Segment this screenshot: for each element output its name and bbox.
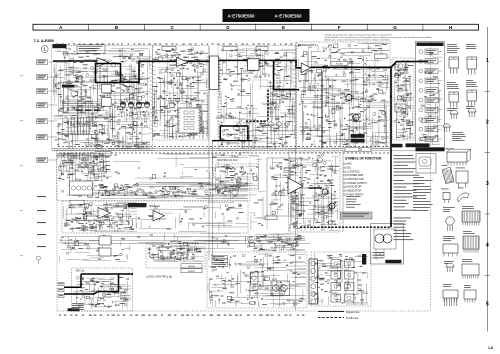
value label — [161, 108, 163, 111]
volume pots — [71, 186, 91, 190]
bus line v4 — [342, 150, 344, 232]
capacitor — [291, 161, 336, 225]
resistor — [224, 61, 288, 127]
pkg text list — [452, 132, 466, 141]
arrow — [390, 96, 392, 99]
transistor — [99, 207, 112, 229]
pcb outline logic control — [146, 243, 205, 268]
margin ticks — [20, 75, 23, 256]
power amp L output — [310, 62, 428, 68]
pcb outline indicator column — [416, 42, 445, 148]
pcb outline bottom center — [207, 252, 307, 308]
label logic ic1 — [181, 264, 202, 268]
junction — [60, 155, 103, 178]
power transistor Q504 — [329, 203, 335, 209]
svg-text:3: 3 — [486, 181, 489, 187]
package TO-92 round — [446, 217, 454, 225]
capacitor — [162, 188, 211, 191]
pkg text r7b — [458, 187, 464, 190]
value label — [291, 165, 336, 228]
volume IC pins — [208, 58, 220, 86]
junction — [98, 186, 237, 195]
resistor — [56, 55, 144, 127]
op-amp IC102 L — [177, 58, 189, 67]
resistor — [138, 236, 229, 250]
block: power amp L texture — [298, 43, 389, 147]
wire — [220, 49, 295, 142]
block: indicator col texture — [418, 52, 443, 145]
resistor — [56, 55, 140, 126]
svg-text:1-6: 1-6 — [488, 346, 493, 350]
transistor — [394, 65, 408, 131]
svg-text:(e) PROTECTOR: (e) PROTECTOR — [344, 177, 364, 181]
wire — [59, 154, 94, 182]
wire — [225, 54, 295, 149]
wire — [59, 155, 111, 181]
block: tone lower texture — [62, 182, 248, 200]
diode — [223, 105, 275, 136]
svg-text:F: F — [338, 25, 341, 30]
wire — [59, 237, 129, 262]
value label — [64, 204, 130, 228]
block: cn pin field texture — [245, 234, 305, 252]
value label — [300, 57, 385, 143]
block: bottom center texture — [208, 254, 306, 307]
wire — [219, 53, 294, 149]
wire — [300, 44, 390, 142]
wire — [113, 153, 248, 178]
resistor — [150, 155, 239, 179]
capacitor — [78, 185, 239, 197]
transistor — [62, 51, 140, 147]
label psu dark — [362, 254, 366, 265]
row tick — [485, 213, 490, 215]
package TO-92 a — [450, 110, 458, 119]
value label — [65, 48, 144, 147]
legend notes col B — [394, 180, 419, 211]
resistor — [315, 59, 387, 146]
wire — [77, 281, 128, 307]
wire — [208, 256, 294, 307]
value label — [61, 80, 134, 147]
svg-text:2: 2 — [486, 119, 489, 125]
wire — [49, 104, 58, 106]
wire — [153, 53, 208, 137]
arrow — [70, 60, 72, 62]
IC — [253, 177, 257, 181]
package small end — [464, 290, 476, 303]
wire — [117, 156, 235, 180]
bus pin labels — [58, 146, 389, 153]
resistor — [306, 56, 382, 133]
wire — [248, 234, 305, 251]
diode — [248, 241, 298, 251]
wire — [59, 241, 130, 262]
driver transistor Q505 — [318, 158, 323, 163]
IC — [421, 119, 427, 141]
resistor — [397, 90, 402, 92]
wire — [290, 155, 335, 231]
svg-text:LA7954: LA7954 — [188, 265, 196, 268]
IC — [234, 93, 291, 129]
block: psu texture — [313, 253, 368, 305]
connector — [58, 288, 64, 291]
connector label — [37, 246, 46, 247]
IC — [83, 204, 122, 221]
transistor — [301, 44, 379, 141]
pcb outline eq L block — [62, 201, 248, 233]
svg-text:* Design and specifications su: * Design and specifications subject to c… — [324, 33, 393, 36]
schematic bottom border — [57, 310, 430, 312]
wire — [395, 86, 414, 139]
label EQ ic — [128, 203, 147, 207]
bus line h1 — [52, 148, 390, 150]
value label — [57, 115, 132, 145]
junction — [299, 46, 380, 130]
connector label — [37, 210, 46, 211]
wire — [216, 261, 306, 304]
legend footnotes — [346, 196, 361, 208]
value label — [73, 183, 227, 197]
resistor — [398, 72, 412, 136]
wire — [105, 208, 129, 225]
IC — [250, 242, 297, 246]
pkg text r10a — [444, 261, 454, 264]
value label — [65, 49, 144, 137]
legend notes col C — [394, 218, 414, 241]
label trans dark — [385, 260, 401, 263]
resistor — [154, 70, 197, 134]
package ZIP hatch — [463, 236, 479, 253]
block: eq L texture — [64, 202, 138, 232]
wire — [395, 76, 413, 139]
label mic pcb — [68, 308, 80, 311]
wire — [291, 160, 339, 224]
capacitor — [139, 209, 228, 228]
value label — [84, 184, 218, 198]
transistor — [171, 68, 204, 102]
pcb outline control1 sub — [216, 164, 259, 189]
transformer leads — [375, 249, 377, 260]
diode — [102, 183, 224, 197]
wire — [154, 245, 187, 261]
indicator LED D602 — [419, 59, 423, 63]
speaker rail — [390, 67, 392, 227]
arrow — [119, 273, 121, 275]
svg-text:CONTROL (2) R-ch: CONTROL (2) R-ch — [217, 159, 239, 162]
pkg text 2SD667 — [466, 80, 478, 87]
label F-2008 c — [265, 216, 277, 220]
value label — [63, 56, 146, 130]
volume pot box — [70, 181, 93, 195]
value label — [300, 47, 377, 131]
junction — [80, 277, 124, 305]
value label — [157, 53, 201, 134]
wire — [314, 46, 388, 147]
bus line v2 — [212, 140, 214, 255]
grid separator F — [311, 24, 313, 30]
value label — [318, 45, 380, 141]
value label — [315, 263, 350, 288]
wire — [291, 163, 339, 231]
block: control1 sub texture — [216, 165, 258, 189]
svg-text:(d) POWER AMP: (d) POWER AMP — [344, 173, 364, 177]
wire — [208, 265, 303, 305]
wire — [66, 183, 248, 198]
capacitor — [395, 61, 411, 137]
diode — [83, 215, 132, 230]
grid separator B — [88, 24, 90, 30]
junction — [221, 140, 223, 142]
capacitor — [83, 277, 122, 307]
capacitor — [271, 239, 295, 250]
label SELECTOR dark — [62, 85, 75, 88]
indicator LED D607 — [419, 108, 423, 112]
value label — [219, 166, 248, 187]
wire — [150, 245, 195, 262]
value label — [76, 277, 126, 305]
capacitor — [171, 249, 194, 261]
transistor Q21 — [261, 122, 266, 127]
capacitor — [153, 64, 198, 137]
arrow — [160, 60, 162, 62]
transistor — [292, 154, 335, 223]
resistor — [250, 236, 277, 248]
svg-text:5: 5 — [486, 301, 489, 307]
relay RY601 — [395, 62, 406, 70]
IC U103 dip — [178, 108, 200, 133]
wire — [74, 184, 218, 198]
label F-2010 — [53, 44, 67, 48]
junction — [207, 170, 208, 171]
svg-text:1: 1 — [486, 58, 489, 64]
connector CN107 — [37, 158, 48, 163]
diode — [220, 54, 292, 135]
wire — [397, 62, 410, 139]
wire — [49, 76, 58, 78]
resistor — [61, 154, 94, 180]
wire — [67, 204, 137, 232]
capacitor — [55, 59, 140, 134]
wire — [216, 167, 252, 189]
value label — [253, 49, 293, 139]
resistor — [300, 157, 334, 217]
value label — [421, 53, 439, 137]
wire — [54, 50, 151, 136]
wire — [152, 54, 200, 139]
wire — [304, 53, 386, 147]
junction — [248, 140, 250, 142]
capacitor — [73, 90, 145, 112]
wire — [313, 257, 368, 304]
package small 7a — [443, 193, 450, 200]
value label — [218, 262, 279, 302]
row tick — [485, 275, 490, 277]
value label — [65, 204, 135, 229]
resistor — [79, 283, 126, 307]
value label — [299, 170, 335, 228]
value label — [71, 185, 242, 195]
wire — [153, 247, 205, 261]
svg-text:MIC (a): MIC (a) — [76, 270, 85, 273]
capacitor — [76, 240, 78, 242]
arrow — [252, 120, 254, 122]
svg-text:(f) POWER SUPPLY: (f) POWER SUPPLY — [344, 181, 368, 185]
value label — [254, 200, 263, 225]
IC — [63, 52, 124, 149]
wire — [221, 49, 295, 149]
arrow — [229, 59, 231, 61]
value label — [71, 238, 124, 259]
IC — [303, 44, 385, 118]
power transistor Q502 — [353, 114, 359, 120]
resistor — [62, 184, 238, 198]
capacitor — [164, 172, 166, 177]
value label — [153, 56, 198, 136]
bus label box b — [361, 148, 371, 152]
value label — [305, 52, 384, 140]
resistor — [153, 51, 204, 132]
transistor — [217, 165, 242, 184]
value label — [229, 171, 234, 178]
transistor — [304, 66, 346, 131]
transistor Q22 — [269, 122, 274, 127]
wire — [304, 45, 387, 147]
resistor — [231, 167, 243, 183]
resistor — [256, 140, 258, 141]
pkg text 2SC2240 — [466, 44, 476, 49]
junction — [254, 215, 255, 216]
wire — [165, 234, 218, 253]
parts table box — [77, 45, 105, 54]
transistor — [157, 204, 241, 219]
value label — [114, 154, 241, 173]
junction — [214, 140, 216, 142]
resistor — [72, 190, 146, 196]
value label — [397, 61, 413, 126]
value label — [227, 56, 292, 134]
label box eq — [70, 200, 84, 204]
transistor — [76, 276, 127, 301]
op-amp power amp L — [301, 63, 310, 73]
wire — [49, 61, 58, 63]
wire — [58, 64, 138, 149]
label box top b — [223, 46, 237, 50]
package DIP-C — [462, 264, 479, 279]
wire — [239, 50, 295, 147]
diode — [71, 85, 134, 142]
arrow — [247, 132, 249, 134]
wire — [216, 165, 258, 185]
value label — [213, 260, 302, 305]
wire — [54, 48, 148, 149]
capacitor — [156, 51, 205, 136]
indicator LED D608 — [419, 118, 423, 122]
block: tone ribbon texture — [57, 152, 112, 182]
ribbon bundle — [57, 154, 110, 158]
driver transistor Q506 — [328, 205, 333, 210]
pkg text r9b — [463, 231, 475, 234]
bus thick segment — [212, 140, 252, 142]
tone resistor row — [100, 187, 232, 194]
grid column band — [33, 24, 479, 30]
diode — [82, 278, 113, 292]
wire — [54, 54, 150, 141]
op-amp IC101 L — [97, 58, 109, 67]
capacitor — [298, 45, 371, 144]
diode — [316, 266, 362, 295]
wire — [62, 154, 112, 181]
speaker terminal L — [273, 285, 280, 292]
row margin line — [486, 27, 488, 332]
IC U201 — [102, 84, 112, 93]
wire — [289, 154, 331, 231]
connector — [58, 282, 64, 285]
pcb outline power amp L — [297, 42, 391, 148]
wire — [59, 69, 147, 147]
package DIP-14 3d — [447, 152, 467, 166]
value label — [269, 160, 296, 205]
arrow — [294, 89, 296, 91]
value label — [57, 82, 137, 140]
wire — [64, 205, 137, 231]
wire — [245, 234, 301, 252]
selector knob — [71, 90, 77, 96]
resistor — [60, 235, 124, 257]
transistor Q23 — [277, 122, 282, 127]
diode — [438, 83, 440, 85]
resistor — [322, 256, 365, 295]
diode — [323, 51, 375, 144]
value label — [157, 49, 201, 99]
wire — [306, 68, 386, 146]
transformer text — [373, 252, 384, 258]
junction — [57, 50, 143, 144]
transistor — [152, 54, 206, 133]
relay RY602 — [395, 104, 406, 112]
nfb line key — [318, 317, 344, 319]
pkg text r6a — [442, 164, 448, 167]
package TO-92 b — [468, 108, 476, 117]
wire — [87, 182, 248, 198]
block: logic texture — [148, 244, 204, 262]
connector label — [37, 196, 46, 197]
wire — [64, 206, 137, 232]
svg-text:* Anderungen, die dem technisc: * Anderungen, die dem technischen Fortsc… — [324, 39, 391, 42]
value label — [230, 56, 286, 147]
label pcb F-2009 b — [406, 143, 430, 147]
label stk1 — [351, 134, 365, 138]
value label — [315, 255, 364, 292]
nfb dashed pair b — [366, 57, 368, 150]
wire — [73, 278, 131, 299]
value label — [209, 255, 295, 301]
wire — [302, 44, 385, 147]
value label — [153, 54, 203, 136]
pkg text r6b — [456, 167, 465, 170]
capacitor — [68, 153, 108, 179]
op-amp eq L1 — [98, 208, 111, 219]
mic parts list — [72, 303, 84, 310]
bus line h4 — [62, 239, 305, 241]
package SIP long pins — [443, 290, 458, 302]
wire — [60, 152, 110, 181]
value label — [274, 159, 298, 204]
package flat b — [456, 171, 468, 183]
wire — [180, 212, 219, 231]
value label — [303, 160, 333, 223]
wire — [49, 120, 58, 122]
